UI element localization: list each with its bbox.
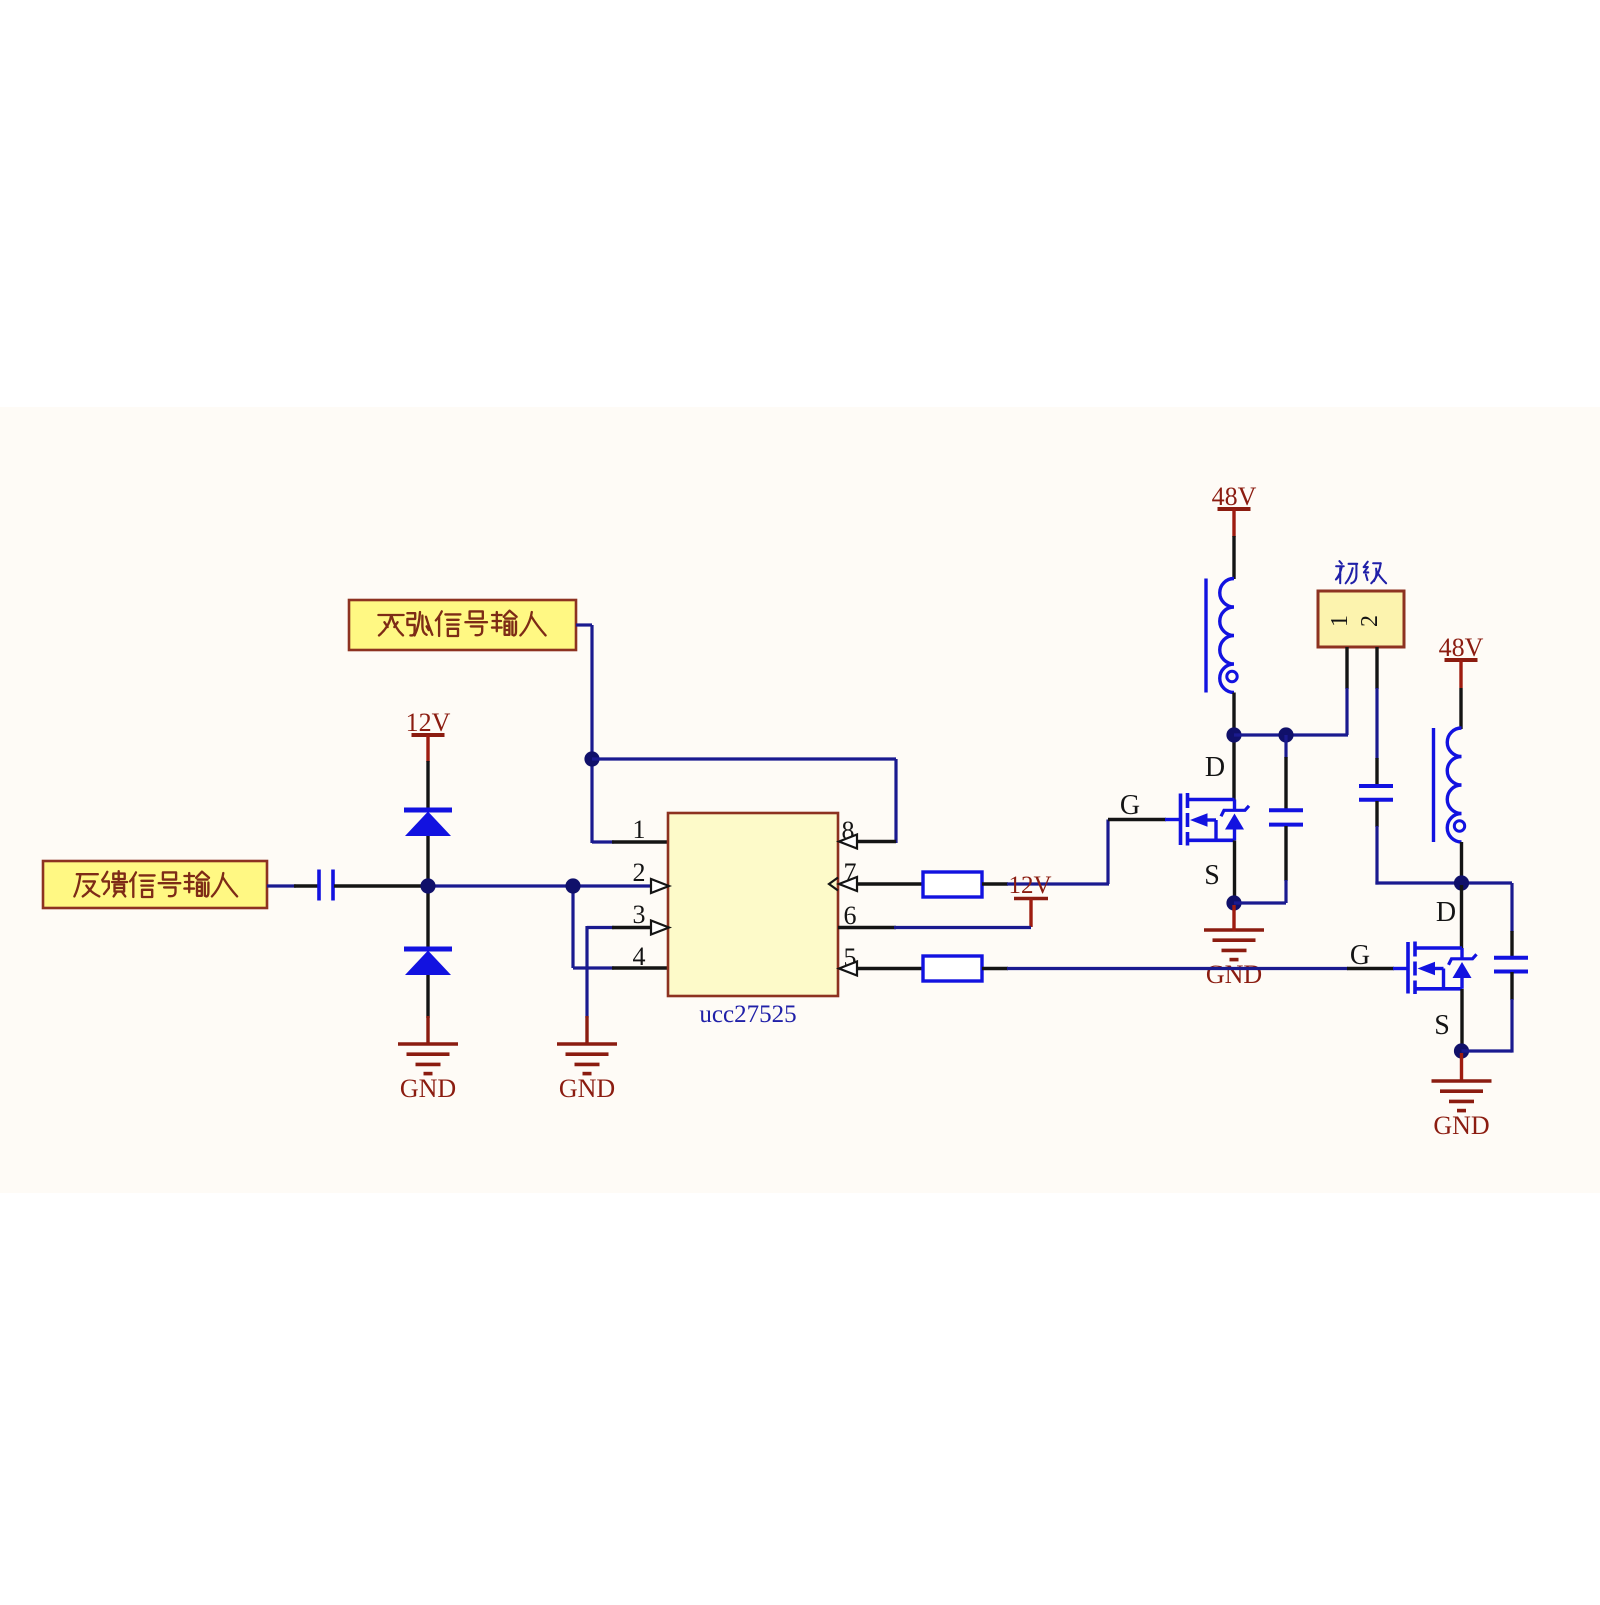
svg-text:12V: 12V — [1008, 872, 1051, 899]
svg-text:D: D — [1436, 897, 1456, 928]
svg-text:2: 2 — [633, 858, 646, 887]
svg-text:6: 6 — [844, 901, 857, 930]
svg-text:GND: GND — [400, 1074, 456, 1103]
svg-text:S: S — [1204, 860, 1220, 891]
svg-text:G: G — [1350, 940, 1370, 971]
svg-text:GND: GND — [1206, 960, 1262, 989]
svg-text:1: 1 — [1327, 615, 1353, 627]
svg-text:12V: 12V — [406, 708, 451, 737]
svg-text:48V: 48V — [1212, 482, 1257, 511]
svg-text:S: S — [1434, 1010, 1450, 1041]
svg-text:ucc27525: ucc27525 — [699, 1001, 796, 1028]
svg-text:1: 1 — [633, 815, 646, 844]
svg-text:GND: GND — [559, 1074, 615, 1103]
svg-text:GND: GND — [1433, 1111, 1489, 1140]
svg-text:D: D — [1205, 752, 1225, 783]
svg-text:G: G — [1120, 790, 1140, 821]
svg-text:3: 3 — [633, 900, 646, 929]
svg-text:4: 4 — [633, 942, 646, 971]
svg-text:48V: 48V — [1439, 633, 1484, 662]
svg-text:2: 2 — [1357, 615, 1383, 627]
